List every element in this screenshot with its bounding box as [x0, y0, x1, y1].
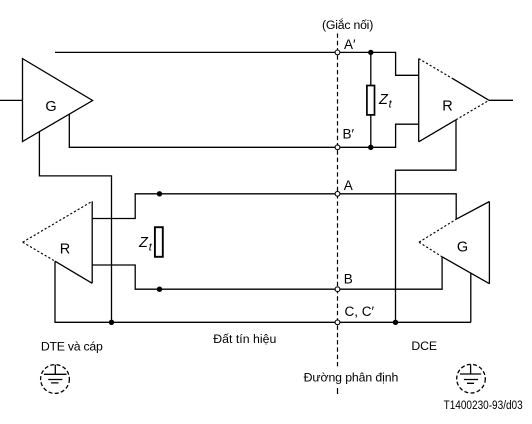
- resistor Zt2 (termination) box: [155, 227, 163, 257]
- svg-text:R: R: [60, 241, 70, 257]
- svg-text:C, C′: C, C′: [345, 304, 375, 319]
- receiver R1 (DTE, bottom left) triangle: [91, 201, 93, 283]
- resistor Zt1 (termination) box: [367, 86, 375, 115]
- svg-text:Đường phân định: Đường phân định: [304, 371, 399, 385]
- wire B' from generator G bottom edge: [69, 114, 418, 147]
- generator G2 (DCE, bottom right) triangle: [488, 202, 490, 284]
- svg-text:(Giắc nối): (Giắc nối): [322, 17, 373, 32]
- svg-text:T1400230-93/d03: T1400230-93/d03: [444, 398, 523, 412]
- svg-text:Z: Z: [378, 92, 389, 108]
- wire A' top pair: [55, 52, 419, 75]
- generator G1 (DTE) triangle: [23, 59, 93, 142]
- junction dot B wire: [157, 287, 162, 292]
- junction dot Zt1 top: [368, 50, 373, 55]
- junction dot A wire: [157, 191, 162, 196]
- junction dot Zt1 bottom: [368, 145, 373, 150]
- wire G to signal ground: [39, 132, 111, 323]
- node A' circle: [335, 50, 340, 55]
- wire Zt1 vertical: [370, 52, 372, 147]
- boundary dashed line (interface demarcation): [337, 34, 339, 368]
- node B circle: [335, 287, 340, 292]
- wire DCE generator ground drop: [470, 273, 472, 323]
- svg-text:B: B: [344, 272, 353, 287]
- wire DCE receiver ground drop: [396, 120, 457, 322]
- junction dot ground right: [393, 320, 398, 325]
- receiver R2 (DCE, top right) triangle: [418, 59, 420, 142]
- node C circle: [335, 320, 340, 325]
- svg-text:B′: B′: [343, 126, 355, 141]
- svg-text:Z: Z: [138, 235, 149, 251]
- wire B pair to DTE receiver: [92, 257, 442, 289]
- svg-text:R: R: [442, 98, 452, 114]
- ground symbol right (protective earth): [457, 364, 486, 393]
- node A circle: [335, 191, 340, 196]
- wire C signal ground line: [55, 261, 471, 322]
- svg-text:A: A: [344, 178, 353, 193]
- wire DCE receiver output: [489, 99, 513, 101]
- ground symbol left (protective earth): [41, 365, 70, 394]
- svg-text:DTE và cáp: DTE và cáp: [41, 340, 103, 354]
- node B' circle: [335, 145, 340, 150]
- wire G input stub: [0, 99, 23, 101]
- svg-text:DCE: DCE: [411, 339, 437, 353]
- wire A pair to DTE receiver: [92, 194, 456, 219]
- svg-text:G: G: [457, 239, 468, 255]
- junction dot ground left: [109, 320, 114, 325]
- svg-text:Đất tín hiệu: Đất tín hiệu: [213, 332, 276, 346]
- svg-text:G: G: [45, 99, 56, 115]
- svg-text:A′: A′: [344, 37, 356, 52]
